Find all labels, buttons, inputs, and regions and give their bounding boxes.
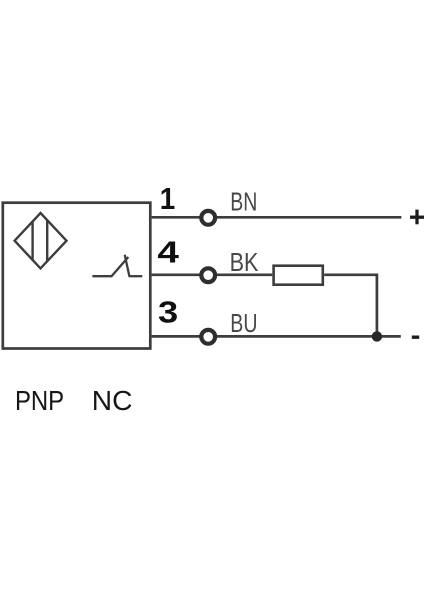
svg-text:4: 4 bbox=[157, 235, 179, 270]
diamond left vertical bar bbox=[31, 221, 33, 260]
proximity sensor diamond symbol bbox=[15, 213, 67, 268]
svg-text:BN: BN bbox=[230, 188, 257, 216]
terminal circle pin 1 bbox=[201, 211, 215, 225]
wire corner down to junction bbox=[376, 274, 379, 337]
wire pin1 to terminal bbox=[152, 216, 200, 219]
plus sign bbox=[410, 216, 424, 219]
NC contact switch: right contact descending line bbox=[125, 255, 130, 276]
svg-text:NC: NC bbox=[92, 385, 133, 416]
svg-text:1: 1 bbox=[160, 181, 176, 216]
junction dot bbox=[372, 331, 382, 341]
svg-text:BK: BK bbox=[230, 249, 259, 277]
wire BU to minus bbox=[217, 335, 401, 338]
svg-text:3: 3 bbox=[158, 295, 178, 330]
wire pin4 to terminal bbox=[152, 273, 200, 276]
resistor R load bbox=[274, 266, 323, 285]
wire BK to resistor bbox=[217, 273, 272, 276]
svg-text:PNP: PNP bbox=[15, 385, 64, 416]
wire BN to plus bbox=[217, 216, 401, 219]
sensor body box bbox=[3, 203, 151, 349]
NC contact switch: left lead bbox=[92, 275, 112, 277]
terminal circle pin 3 bbox=[201, 330, 215, 344]
NC contact switch: right lead bbox=[129, 275, 143, 277]
minus sign bbox=[412, 336, 419, 339]
diamond right vertical bar bbox=[46, 220, 48, 261]
wire pin3 to terminal bbox=[152, 335, 200, 338]
svg-text:BU: BU bbox=[230, 310, 257, 338]
NC contact switch: moving lever diagonal bbox=[112, 257, 129, 276]
wire resistor to corner bbox=[324, 273, 377, 276]
terminal circle pin 4 bbox=[201, 268, 215, 282]
